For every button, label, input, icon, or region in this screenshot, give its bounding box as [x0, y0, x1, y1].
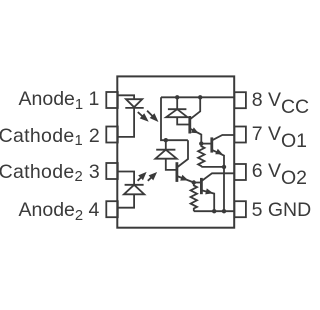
LED D2 (channel 2): [124, 185, 144, 195]
transistor Q1 (channel 1 driver): [190, 97, 202, 143]
node: Q3 emitter / R2 / Q4 base: [192, 180, 196, 184]
photodiode D3 (channel 1 detector): [166, 97, 190, 124]
wire LED1 cathode to pin2: [117, 108, 134, 137]
light arrows channel 1: [136, 108, 161, 124]
wire Q3 emitter node to Q4 base: [194, 182, 202, 184]
label Anode2 pin 4: [19, 201, 100, 221]
wire pin3 to LED2 cathode: [117, 172, 134, 185]
pin 7 pad: [234, 127, 246, 143]
wire LED2 anode to pin4: [117, 194, 134, 207]
node: GND riser to GND rail: [222, 209, 226, 213]
package outline U1: [117, 76, 234, 227]
resistor R2: [191, 183, 197, 212]
pin 3 pad: [106, 163, 118, 179]
pin 4 pad: [106, 201, 118, 217]
wire R1 bottom to GND riser: [201, 166, 224, 168]
VCC rail to pin 8: [161, 96, 234, 98]
label pin 8 VCC: [252, 91, 309, 111]
node: Q4 emitter to GND rail: [212, 209, 216, 213]
label Anode1 pin 1: [19, 90, 100, 110]
node: rail to D1: [175, 95, 179, 99]
LED D1 (channel 1): [125, 99, 143, 108]
transistor Q2 (channel 1 output): [212, 135, 234, 211]
pin 2 pad: [106, 127, 118, 143]
label Cathode2 pin 3: [0, 163, 100, 183]
wire Q1 emitter node to Q2 base: [201, 143, 212, 145]
light arrows channel 2: [135, 169, 159, 183]
transistor Q3 (channel 2 driver): [177, 140, 194, 182]
label Cathode1 pin 2: [0, 127, 100, 147]
label pin 6 VO2: [252, 162, 307, 182]
pin 6 pad: [234, 164, 246, 180]
pin 5 pad: [234, 201, 246, 217]
node: Q1 emitter / R1 / Q2 base: [199, 141, 203, 145]
node: riser to D2: [164, 138, 168, 142]
node: R1 to GND riser: [222, 165, 226, 169]
label pin 7 VO1: [252, 125, 307, 145]
pin 1 pad: [106, 92, 118, 108]
resistor R1: [198, 144, 204, 167]
node: rail to Q1 collector: [198, 95, 202, 99]
pin 8 pad: [234, 92, 246, 108]
transistor Q4 (channel 2 output): [201, 173, 234, 211]
VCC riser down to channel 2: [161, 97, 188, 140]
GND rail to pin 5: [194, 210, 234, 212]
wire pin1 to LED1 anode: [117, 95, 134, 99]
label pin 5 GND: [252, 201, 312, 221]
photodiode D4 (channel 2 detector): [155, 140, 177, 170]
